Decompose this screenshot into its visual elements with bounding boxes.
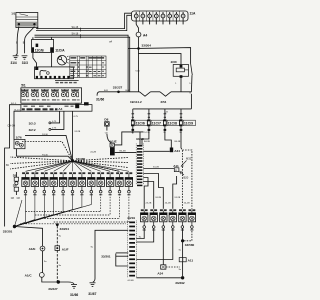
dashed feed to node (22, 142, 73, 161)
wire battery to ground 31/4 (16, 27, 19, 56)
svg-text:1/1: 1/1 (11, 11, 16, 15)
svg-text:11A: 11A (190, 12, 196, 16)
svg-text:SA-16: SA-16 (72, 33, 79, 36)
wire to ground 31/66 (58, 282, 74, 284)
svg-text:31/67: 31/67 (88, 292, 96, 296)
node 33/304 (137, 47, 140, 50)
courtesy lamp at x=25.5 (22, 172, 29, 195)
svg-text:B4-3B: B4-3B (144, 141, 150, 143)
fuse 5/1 unit 2 (31, 89, 38, 92)
courtesy lamp at x=110.1 (106, 172, 113, 195)
connector A34 bottom (161, 265, 166, 269)
wire fuse 11C/8 to A34 (165, 134, 171, 148)
svg-text:D8: D8 (104, 117, 108, 121)
svg-text:24-2B: 24-2B (174, 197, 180, 199)
svg-text:B4-3B: B4-3B (120, 151, 127, 153)
courtesy lamp at x=44.3 (41, 172, 48, 195)
fuse 11C/9 (180, 109, 182, 120)
connector V 2/54 (160, 92, 171, 96)
ground stub 31/66 top (97, 92, 99, 96)
svg-text:24-2B: 24-2B (155, 197, 161, 199)
wire node 33/304 to relay coil (139, 48, 182, 65)
svg-text:A1/F: A1/F (62, 248, 69, 252)
wire 33/301 to A1/C branch (15, 227, 43, 247)
svg-text:A34: A34 (174, 149, 180, 153)
wires bottom lamps to ladder 34/19 (136, 228, 144, 238)
svg-text:11C/6: 11C/6 (136, 122, 145, 126)
fuse box 5/1 (21, 88, 82, 103)
svg-text:24-2B: 24-2B (146, 203, 152, 205)
fuse 5/1 unit 1 (21, 89, 28, 92)
wire fuse 11C/6 into ladder (139, 132, 141, 145)
ladder 34/18 exit to A11 (143, 168, 174, 170)
svg-text:19/114-2: 19/114-2 (130, 100, 142, 104)
wire A11 down to lamp (173, 176, 177, 209)
fuse 5/1 unit 3 (41, 89, 48, 92)
svg-text:P4-30: P4-30 (42, 155, 49, 157)
battery bus stub (37, 27, 39, 30)
svg-text:B-1.5: B-1.5 (15, 109, 21, 111)
ignition switch position table (70, 56, 106, 78)
wire A1/E riser to fuse bottoms (114, 132, 143, 145)
ignition switch housing (35, 67, 74, 79)
connector A34 top (170, 148, 173, 153)
wire main run 33/227 (99, 91, 140, 93)
svg-text:31/3: 31/3 (22, 61, 28, 65)
svg-text:B-R: B-R (104, 90, 108, 92)
dashed rays left of node 33/380 (10, 157, 73, 161)
ground 31/4 (13, 55, 19, 57)
ground 31/66 (71, 284, 77, 286)
node 33/292 (181, 276, 184, 279)
node 33/380 (71, 159, 74, 162)
node 33/227 bottom (57, 280, 60, 283)
svg-text:A1/C: A1/C (25, 274, 33, 278)
wire battery to ground 31/3 (25, 27, 35, 54)
wire relay coil pin down (180, 78, 182, 92)
courtesy lamp at x=81.9 (78, 172, 85, 195)
svg-text:33/580: 33/580 (185, 243, 195, 247)
wire 33/204 down (dash-dot) (56, 226, 58, 246)
wire lamp to A34 bottom (162, 228, 164, 264)
svg-text:3/2:3: 3/2:3 (29, 121, 36, 125)
wire bar drop main feed to node 33/380 (72, 111, 74, 161)
wire feed down to fuse bus (190, 94, 192, 109)
courtesy lamp at x=128.9 (125, 172, 132, 195)
svg-text:34-2B: 34-2B (153, 167, 159, 169)
svg-text:A11: A11 (173, 164, 179, 168)
wire node to A11 bottom (182, 241, 184, 258)
wire bar drop 3/2:3 (51, 111, 60, 123)
fuse 5/1 unit 5 (61, 89, 68, 92)
fuse 11C/6 (132, 109, 134, 120)
svg-text:11C/B: 11C/B (35, 48, 45, 52)
fuse 11C/7 (148, 109, 150, 120)
wire pad to ladder 34/18 (115, 151, 137, 153)
ladder 34/18 exits to bottom lamps (143, 178, 148, 209)
fuse 5/1 unit 4 (51, 89, 58, 92)
connector A4 (136, 32, 141, 37)
feed from 1/76 to node (25, 135, 73, 160)
wire node 33/304 down to connector 19/114-2 (138, 54, 140, 92)
svg-text:24-2B: 24-2B (165, 203, 171, 205)
svg-text:11C/7: 11C/7 (152, 122, 161, 126)
svg-text:P4-30: P4-30 (42, 134, 49, 136)
svg-text:3/2:2: 3/2:2 (29, 128, 36, 132)
svg-text:31/66: 31/66 (96, 98, 104, 102)
wire ladder 34/19 to ground 31/67 (93, 230, 128, 282)
svg-text:33/304: 33/304 (142, 43, 152, 47)
courtesy lamp at x=153.7 (150, 209, 157, 230)
wire bar left feed B (14, 111, 21, 139)
feed from 1/76 bottom to node (16, 156, 72, 161)
dashed stubs from lamps 9-12 (100, 194, 102, 212)
svg-text:A1/E: A1/E (29, 247, 36, 251)
wire bus into 11C/B box (32, 37, 34, 39)
courtesy lamp at x=91.3 (88, 172, 95, 195)
svg-text:B-R: B-R (126, 90, 130, 92)
courtesy lamp at x=63.1 (59, 172, 66, 195)
node 33/580 (181, 239, 184, 242)
fuse bus 11C (133, 108, 192, 110)
svg-text:31/4: 31/4 (11, 61, 17, 65)
svg-text:34/19: 34/19 (127, 216, 135, 220)
svg-text:A4: A4 (143, 34, 147, 38)
terminal strip under switch (55, 80, 79, 82)
wire lamp to node 33/580 (181, 228, 183, 241)
svg-text:11C/A: 11C/A (55, 49, 65, 53)
wire D8 to connector A1/E (107, 134, 112, 143)
wire relay contact pin down (190, 75, 193, 92)
svg-text:CH-09: CH-09 (7, 124, 15, 128)
battery 1/1 (16, 13, 38, 28)
svg-text:11C/9: 11C/9 (184, 122, 193, 126)
courtesy lamp at x=53.7 (50, 172, 57, 195)
wire 11A pin to connector A4 (136, 24, 138, 32)
svg-text:11C/8: 11C/8 (168, 122, 177, 126)
connector A11 bottom (179, 258, 182, 262)
svg-text:24-2B: 24-2B (184, 203, 190, 205)
svg-text:33/204: 33/204 (60, 227, 70, 231)
wire 33/292 to ladder 34/19 (136, 277, 182, 279)
svg-text:33/301: 33/301 (3, 229, 13, 233)
dashed alternate wires (26, 211, 101, 213)
wire fuse 11C/9 to lamp feeds (180, 134, 182, 149)
dashed feeds to bottom lamps (181, 148, 182, 209)
svg-text:2/54: 2/54 (161, 100, 167, 104)
svg-text:33/292: 33/292 (175, 281, 185, 285)
courtesy lamp at x=182.4 (179, 209, 186, 230)
fan wires to splice 33/301 (15, 193, 26, 226)
courtesy lamp at x=163.3 (160, 209, 167, 230)
node 33/301 (13, 225, 16, 228)
svg-text:SA-16: SA-16 (72, 26, 79, 29)
ground 31/67 (90, 282, 96, 284)
courtesy lamp at x=72.5 (69, 172, 76, 195)
wire bus corner to node 33/304 (128, 47, 138, 49)
svg-text:A34: A34 (157, 271, 163, 275)
courtesy lamp at x=172.8 (169, 209, 176, 230)
svg-text:B4-3B: B4-3B (175, 141, 181, 143)
svg-text:B-1.5: B-1.5 (11, 103, 17, 105)
fuse 5/1 unit 6 (71, 89, 78, 92)
svg-text:33/201: 33/201 (101, 255, 111, 259)
svg-text:A4: A4 (58, 107, 62, 111)
wire bus X (double) battery to connector 11A (36, 13, 132, 28)
connector box 11C/B (32, 40, 54, 53)
svg-text:24-2B: 24-2B (90, 152, 96, 154)
ignition switch 11C rotary (57, 55, 69, 65)
svg-text:24-2B: 24-2B (74, 131, 80, 133)
node 33/227 top (117, 91, 120, 94)
wire bus 30 (double) battery to feed riser (35, 35, 129, 48)
fuse 11C/8 (164, 109, 166, 120)
ground 31/3 (22, 55, 28, 57)
ladder 34/18 exit to A34 top (143, 150, 169, 152)
courtesy lamp at x=119.5 (116, 172, 123, 195)
svg-text:5/1: 5/1 (21, 84, 26, 88)
wire fuse box left feed A (5, 105, 21, 227)
connector bar below 5/1 (21, 105, 92, 112)
svg-text:M32: M32 (186, 157, 192, 161)
wire 11C/B pins to switch housing (33, 52, 37, 67)
svg-text:B20: B20 (184, 175, 189, 179)
wire fuse 11C/7 into ladder (142, 134, 149, 146)
relay 2/30 (173, 64, 192, 78)
bus connector ticks (80, 28, 82, 32)
svg-text:33/227: 33/227 (48, 287, 58, 291)
svg-text:Y-10: Y-10 (135, 71, 140, 73)
solid rays from node 33/380 to lamps (26, 161, 73, 172)
wire node 33/304 to relay contact (139, 48, 191, 64)
courtesy lamp at x=191.9 (188, 209, 195, 230)
connector V 19/114-2 (140, 92, 151, 96)
svg-text:2/30: 2/30 (171, 60, 177, 64)
courtesy lamp at x=34.9 (31, 172, 38, 195)
svg-text:33/227: 33/227 (113, 85, 123, 89)
node 33/204 (56, 223, 59, 226)
svg-text:A11: A11 (188, 259, 194, 263)
wire bar drop 3/2:2 (51, 111, 64, 129)
courtesy lamp at x=144.2 (141, 209, 148, 230)
svg-text:34/18: 34/18 (136, 137, 144, 141)
svg-text:4-1/4B: 4-1/4B (127, 280, 134, 282)
wire feed riser down to main run (double) (127, 48, 129, 91)
courtesy lamp at x=100.7 (97, 172, 104, 195)
connector row 11A (132, 11, 189, 24)
connector A1/F (55, 246, 60, 251)
wire A4 to node 33/304 (138, 37, 140, 49)
wire 1/76 bottom (15, 149, 17, 157)
svg-text:31/66: 31/66 (70, 293, 78, 297)
dashed rays right of node 33/380 (73, 158, 129, 161)
